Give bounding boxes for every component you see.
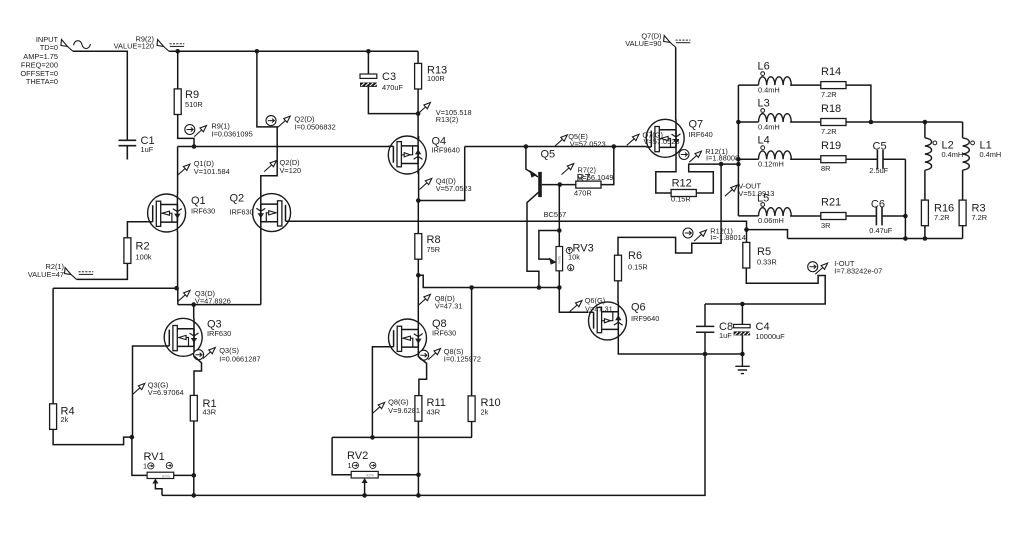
potentiometer RV1 (143, 451, 174, 484)
wire top rail 120V (169, 50, 418, 52)
svg-text:470uF: 470uF (382, 83, 403, 92)
junction bus-C5 (903, 236, 908, 241)
junction bus-R1 (192, 493, 197, 498)
wire Q4 drain jog up to emitter line (418, 147, 464, 201)
svg-text:R13(2): R13(2) (436, 115, 459, 124)
junction mid-RV3 (557, 285, 562, 290)
probe R13(2) voltage (418, 103, 472, 125)
probe Q2(D) current (266, 114, 336, 131)
junction Q1 source (174, 286, 179, 291)
svg-text:V=120: V=120 (280, 166, 302, 175)
junction mid-Q5 collector (537, 285, 542, 290)
svg-text:R7: R7 (577, 173, 591, 185)
svg-text:IRF9640: IRF9640 (432, 146, 460, 155)
wire Q4 drain node (418, 174, 420, 201)
wire R9 bottom jog (178, 115, 194, 147)
junction R7 top (612, 144, 617, 149)
inductor L4 (738, 135, 821, 169)
wire RV2 top line (332, 436, 472, 438)
ground (735, 354, 749, 374)
svg-text:BC557: BC557 (544, 210, 567, 219)
svg-text:0.4mH: 0.4mH (942, 150, 964, 159)
resistor R12 (671, 178, 696, 204)
probe Q7(G) voltage (627, 131, 680, 147)
wire Q6 source to ground line (618, 340, 743, 355)
junction Q8 gate-RV2 line (370, 435, 375, 440)
wire RV1 wiper to bus (155, 484, 162, 496)
wire RV1 right to R1 (174, 474, 194, 476)
wire C5 right down (904, 159, 906, 238)
wire R16 bottom (924, 226, 926, 239)
capacitor C6 (846, 199, 905, 236)
svg-text:10k: 10k (568, 253, 580, 262)
probe I-OUT current (808, 259, 882, 276)
capacitor C5 (846, 141, 905, 176)
wire RV1 left drop (132, 437, 147, 475)
svg-text:0.33R: 0.33R (757, 258, 777, 267)
wire Q2 gate long line to R5 node (291, 221, 747, 229)
svg-text:Q1: Q1 (191, 195, 206, 207)
svg-text:I=0.0506832: I=0.0506832 (294, 122, 335, 131)
svg-text:IRF630: IRF630 (207, 329, 231, 338)
wire RV2 left drop (332, 437, 351, 474)
junction bus-R16 (923, 236, 928, 241)
svg-text:I=-1.88014: I=-1.88014 (710, 233, 746, 242)
svg-text:I=0.0661287: I=0.0661287 (219, 354, 260, 363)
wire emitter line to Q7 gate (465, 146, 647, 148)
svg-text:V=57.0523: V=57.0523 (570, 139, 606, 148)
probe Q3(G) voltage (133, 380, 184, 397)
svg-text:Q6: Q6 (631, 302, 646, 314)
svg-text:43R: 43R (203, 408, 217, 417)
transistor Q7 (646, 119, 713, 158)
svg-text:L4: L4 (758, 135, 770, 147)
svg-text:L6: L6 (758, 61, 770, 73)
junction RV3 wiper loop (557, 228, 562, 233)
svg-text:7.2R: 7.2R (934, 213, 950, 222)
resistor R2 (124, 238, 152, 264)
svg-text:V=57.0523: V=57.0523 (436, 184, 472, 193)
svg-text:Q5: Q5 (541, 149, 556, 161)
svg-text:2k: 2k (481, 408, 489, 417)
wire output bus (788, 238, 963, 240)
transistor Q2 (230, 193, 291, 232)
node Q7(D) VALUE=90 labels (625, 32, 661, 49)
junction Q5 base-RV3 (558, 182, 563, 187)
svg-text:100k: 100k (136, 253, 152, 262)
svg-text:2.5uF: 2.5uF (869, 166, 888, 175)
resistor R1 (190, 395, 216, 421)
wire ground bus bottom (162, 354, 705, 495)
svg-text:3R: 3R (821, 221, 830, 230)
wire RV3 top (558, 185, 560, 247)
svg-text:7.2R: 7.2R (821, 90, 837, 99)
junction Q5 emitter (524, 144, 529, 149)
svg-text:IRF9640: IRF9640 (631, 314, 659, 323)
svg-text:I=7.83242e-07: I=7.83242e-07 (834, 267, 882, 276)
wire L3 row to L1 (846, 121, 963, 123)
svg-text:0.15R: 0.15R (628, 263, 648, 272)
svg-text:IRF630: IRF630 (230, 208, 254, 217)
supply flag R9(2) (157, 40, 184, 52)
wire R11 bottom (417, 421, 419, 495)
svg-text:7.2R: 7.2R (972, 213, 988, 222)
wire Q3 gate down (133, 346, 165, 437)
svg-text:V=47.31: V=47.31 (435, 302, 463, 311)
wire R10 top (471, 288, 473, 396)
potentiometer RV2 (347, 450, 378, 483)
wire R6 bottom to Q6 (617, 281, 619, 303)
wire C3 branch (368, 51, 418, 113)
probe Q3(S) current (194, 346, 261, 363)
svg-text:V=101.584: V=101.584 (194, 167, 230, 176)
wire RV2 wiper stem (364, 483, 366, 495)
probe R12(1) upper current (679, 147, 739, 163)
wire R6 top loop from V-OUT branch (618, 164, 721, 255)
probe Q3(D) voltage (178, 289, 231, 305)
svg-text:V=57.0523: V=57.0523 (644, 137, 680, 146)
svg-text:IRF640: IRF640 (689, 130, 713, 139)
wire Q1 drain node to Q4 gate (178, 147, 389, 195)
resistor R16 (921, 200, 954, 226)
svg-text:Q7: Q7 (689, 119, 704, 131)
junction C8 bottom (703, 352, 708, 357)
resistor R8 (415, 234, 441, 260)
resistor R3 (959, 200, 987, 226)
svg-text:I=1.88008: I=1.88008 (706, 154, 739, 163)
wire R14 to L3 row (846, 85, 871, 122)
wire R5 node line (747, 230, 788, 239)
supply flag Q7(D) (664, 36, 691, 48)
svg-text:8R: 8R (821, 164, 830, 173)
resistor R4 (50, 288, 75, 429)
svg-text:Q2: Q2 (230, 193, 245, 205)
svg-text:V=47.31: V=47.31 (585, 304, 613, 313)
junction C5-C6 (903, 214, 908, 219)
junction C4 bottom (740, 352, 745, 357)
wire input to C1 (73, 51, 127, 140)
svg-text:R14: R14 (821, 66, 841, 78)
junction R13-C3 (416, 111, 421, 116)
svg-text:0.15R: 0.15R (671, 195, 691, 204)
supply flag R2(1) (65, 268, 94, 280)
wire jog to Q3 drain line (178, 288, 261, 304)
resistor R11 (415, 396, 446, 422)
wire R10 bottom (471, 422, 473, 438)
probe V-OUT voltage (725, 182, 774, 198)
wire R3 bottom (962, 226, 964, 239)
wire Q8 drain jog to mid line (418, 275, 559, 287)
svg-text:C3: C3 (382, 71, 396, 83)
svg-text:0.47uF: 0.47uF (869, 226, 892, 235)
probe Q1(D) voltage (178, 159, 230, 176)
junction bus-RV2 wiper (362, 493, 367, 498)
inductor L5 (738, 193, 821, 226)
svg-text:L3: L3 (758, 98, 770, 110)
svg-text:1uF: 1uF (141, 145, 154, 154)
capacitor C3 electrolytic (360, 71, 403, 92)
junction L bus-L4 (736, 157, 741, 162)
capacitor C1 (119, 135, 155, 160)
resistor R18 (821, 103, 846, 136)
resistor R19 (821, 140, 846, 173)
svg-text:TD=0: TD=0 (40, 43, 58, 52)
svg-text:V=47.8926: V=47.8926 (195, 297, 231, 306)
wire R4 bottom to RV1 node (53, 429, 132, 444)
inductor L1 (963, 122, 1002, 200)
junction mid-R10 (469, 285, 474, 290)
svg-text:7.2R: 7.2R (821, 127, 837, 136)
junction Q3 drain (191, 302, 196, 307)
svg-text:V=9.6281: V=9.6281 (388, 406, 420, 415)
junction V-OUT line-L bus (736, 162, 741, 167)
wire Q1 gate to R2 (127, 222, 147, 238)
svg-text:C5: C5 (873, 141, 887, 153)
junction rail-R9 (175, 49, 180, 54)
wire Q8 gate down (372, 347, 388, 438)
wire Q8 source zigzag to R11 (418, 357, 426, 396)
wire RV2 right to R11 (378, 474, 418, 476)
svg-text:0.06mH: 0.06mH (758, 216, 784, 225)
inductor L2 (925, 122, 963, 200)
probe Q5(E) voltage (555, 132, 606, 148)
svg-text:R18: R18 (821, 103, 841, 115)
transistor Q4 (388, 136, 460, 175)
junction R11-RV2 (416, 473, 421, 478)
inductor L3 (738, 98, 821, 132)
junction L3 row-L2 (923, 120, 928, 125)
inductor L6 (738, 61, 821, 95)
svg-text:IRF630: IRF630 (432, 329, 456, 338)
node INPUT source labels (20, 35, 58, 86)
probe R12(1) lower current (683, 226, 746, 242)
svg-text:510R: 510R (185, 100, 203, 109)
wire R2 bottom to flag (77, 263, 128, 279)
wire Q2 drain from rail (257, 51, 277, 194)
probe Q8(D) voltage (418, 294, 462, 311)
wire Q7 source to R12 loop (656, 157, 739, 193)
wire R13 top (417, 51, 419, 63)
resistor R14 (821, 66, 846, 99)
probe Q6(G) voltage (570, 296, 613, 313)
wire Q3 source zigzag to R1 (194, 356, 202, 396)
svg-text:50%: 50% (557, 256, 562, 264)
resistor R7 (574, 173, 601, 198)
svg-text:0.4mH: 0.4mH (980, 150, 1002, 159)
wire R8 bottom (417, 259, 419, 275)
junction R8-Q8 drain (416, 273, 421, 278)
node R9(2) VALUE=120 labels (114, 35, 154, 51)
wire Q1 source down (177, 232, 179, 289)
probe Q2(D) voltage (264, 158, 301, 175)
wire Q8 drain (417, 275, 419, 319)
svg-text:VALUE=120: VALUE=120 (114, 42, 154, 51)
wire RV3 wiper loop (539, 231, 559, 260)
probe R9(1) current (185, 121, 253, 138)
wire R5 bottom to I-OUT jog (705, 268, 825, 304)
svg-text:470R: 470R (574, 189, 592, 198)
probe Q4(D) voltage (420, 176, 472, 192)
wire Q7 drain (675, 47, 677, 120)
svg-text:V=6.97064: V=6.97064 (148, 388, 184, 397)
svg-text:10000uF: 10000uF (756, 332, 786, 341)
resistor R21 (821, 197, 846, 231)
junction rail-C3 (366, 49, 371, 54)
svg-text:R2: R2 (136, 241, 150, 253)
wire L bus vertical (737, 85, 739, 216)
junction bus-R11 (416, 493, 421, 498)
svg-text:R6: R6 (628, 250, 642, 262)
input flag (61, 40, 91, 52)
resistor R13 (415, 63, 448, 89)
resistor R10 (468, 396, 501, 422)
capacitor C4 electrolytic (734, 304, 786, 354)
svg-text:THETA=0: THETA=0 (26, 77, 58, 86)
junction rail-Q2 (255, 49, 260, 54)
junction L bus-L3 (736, 120, 741, 125)
svg-text:100R: 100R (427, 74, 445, 83)
wire Q2 source down (260, 231, 262, 304)
node R2(1) VALUE=47 labels (28, 262, 64, 279)
junction R5 top (744, 227, 749, 232)
svg-text:I=0.125972: I=0.125972 (444, 354, 481, 363)
resistor R6 (615, 250, 648, 281)
junction V-OUT line-R6 branch (719, 162, 724, 167)
svg-text:C6: C6 (871, 199, 885, 211)
svg-text:0.12mH: 0.12mH (758, 160, 784, 169)
transistor Q8 (389, 318, 457, 357)
wire Q3 drain (193, 305, 195, 319)
transistor Q6 (589, 302, 660, 340)
svg-text:R12: R12 (672, 178, 692, 190)
svg-text:1: 1 (143, 462, 147, 471)
wire R4 to Q1 source line (53, 287, 177, 289)
svg-text:43R: 43R (427, 408, 441, 417)
svg-text:R5: R5 (757, 246, 771, 258)
capacitor C8 (696, 304, 733, 354)
potentiometer RV3 (549, 243, 594, 271)
probe Q8(G) voltage (372, 398, 420, 416)
svg-text:1uF: 1uF (719, 331, 732, 340)
svg-text:IRF630: IRF630 (191, 207, 215, 216)
svg-text:R21: R21 (821, 197, 841, 209)
wire R1 bottom (193, 421, 195, 495)
transistor Q1 (148, 194, 216, 232)
wire R13 bottom (417, 89, 419, 136)
wire R9 top (177, 51, 179, 89)
transistor Q3 (164, 318, 231, 356)
junction RV1 left node (130, 435, 135, 440)
svg-text:VALUE=90: VALUE=90 (625, 39, 661, 48)
resistor R5 (743, 230, 777, 268)
junction Q4 drain (416, 198, 421, 203)
wire Q6 gate from mid line (559, 288, 588, 313)
svg-text:VALUE=47: VALUE=47 (28, 270, 64, 279)
junction L3 row-R14 (869, 120, 874, 125)
junction R9-node (192, 144, 197, 149)
svg-text:2k: 2k (61, 415, 69, 424)
svg-text:L5: L5 (757, 193, 769, 205)
svg-text:75R: 75R (427, 245, 441, 254)
svg-text:1: 1 (348, 461, 352, 470)
probe Q8(S) current (419, 347, 481, 363)
junction R1-RV1 (192, 473, 197, 478)
svg-text:I=0.0361095: I=0.0361095 (211, 130, 252, 139)
wire R8 top (417, 201, 419, 234)
svg-text:42%: 42% (366, 473, 374, 478)
svg-text:60%: 60% (162, 473, 170, 478)
svg-text:R19: R19 (821, 140, 841, 152)
wire R7 right up to emitter line (601, 147, 614, 185)
svg-text:0.4mH: 0.4mH (758, 123, 780, 132)
svg-text:0.4mH: 0.4mH (758, 86, 780, 95)
junction C4 top (740, 302, 745, 307)
transistor Q5 BC557 (526, 147, 576, 288)
wire RV3 bottom (558, 271, 560, 288)
resistor R9 (174, 89, 202, 115)
probe R7(2) voltage (562, 164, 614, 182)
